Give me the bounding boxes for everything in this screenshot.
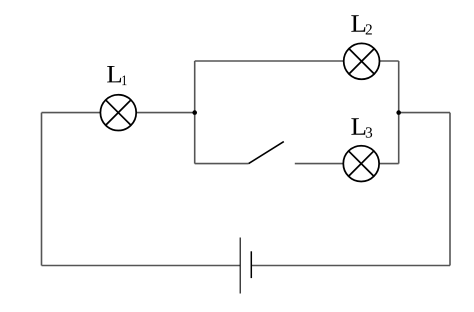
label L2 — [351, 15, 372, 34]
wire: middle vertical L2 to L3 — [398, 61, 400, 164]
wire: switch left — [195, 163, 249, 165]
wire: left vertical — [41, 113, 43, 266]
label L3 — [351, 118, 372, 137]
lamp L1 — [100, 95, 136, 131]
node A junction dot — [192, 110, 197, 115]
wire: L1 left — [42, 112, 101, 114]
wire: L2 right — [379, 60, 398, 62]
wire: L1 right to node A — [136, 112, 195, 114]
wire: left branch vertical — [194, 61, 196, 164]
wire: right vertical — [449, 113, 451, 266]
label L1 — [107, 66, 126, 85]
lamp L2 — [344, 43, 380, 79]
wire: top horizontal to L2 — [195, 60, 344, 62]
switch S1 blade — [249, 142, 284, 164]
node B junction dot — [396, 110, 401, 115]
lamp L3 — [343, 146, 379, 182]
battery short plate — [250, 251, 252, 278]
wire: node B to right vertical — [399, 112, 450, 114]
wire: switch right to L3 — [295, 163, 344, 165]
battery long plate — [239, 238, 241, 294]
wire: bottom left to battery — [42, 265, 241, 267]
wire: L3 right — [379, 163, 399, 165]
wire: battery to bottom right — [251, 265, 450, 267]
